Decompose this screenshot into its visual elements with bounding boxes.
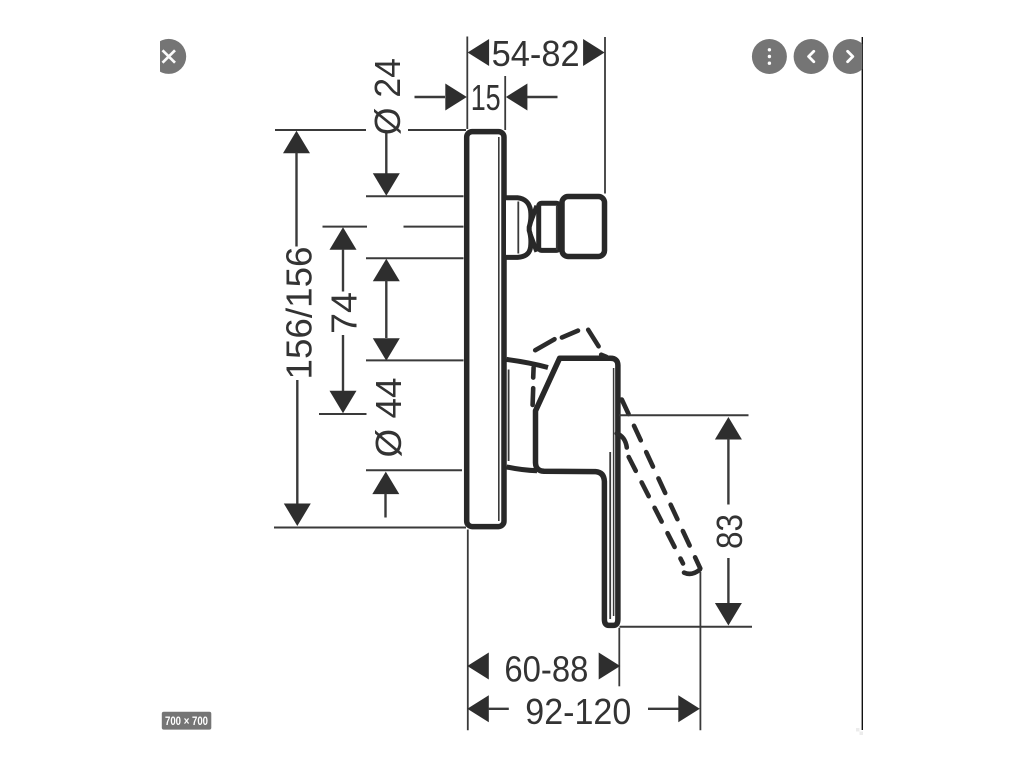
spout middle cylinder bbox=[539, 203, 560, 250]
svg-text:Ø 24: Ø 24 bbox=[367, 58, 408, 135]
bottom line of plate (156/156 lower extension) bbox=[274, 527, 466, 529]
dim 92-120 right arrow and shaft bbox=[648, 708, 679, 710]
dim Ø24 top arrow (points down) bbox=[385, 131, 387, 174]
valve body left rim line bbox=[508, 370, 510, 462]
Ø24 extension top bbox=[366, 195, 464, 197]
spout end block bbox=[562, 197, 605, 257]
svg-text:Ø 44: Ø 44 bbox=[368, 378, 409, 458]
svg-text:156/156: 156/156 bbox=[279, 247, 320, 380]
extension line left lower part (below plate, 60-88/92-120 left) bbox=[467, 530, 469, 731]
dim 15 left arrow and shaft bbox=[415, 96, 446, 98]
lever inner detail line bbox=[609, 452, 611, 619]
svg-text:60-88: 60-88 bbox=[504, 648, 588, 689]
valve body top edge bbox=[507, 359, 549, 367]
dim 83 bottom arrow bbox=[727, 558, 729, 604]
dim 156/156 bottom arrow bbox=[296, 380, 298, 505]
dim 15 right arrow and shaft bbox=[506, 84, 528, 111]
dash 3 bbox=[535, 339, 554, 350]
92-120 right extension line bbox=[699, 572, 701, 730]
next button (clipped at divider) bbox=[833, 39, 868, 74]
raised lever dashed outline, left edge hook bbox=[617, 434, 627, 448]
60-88 right extension line bbox=[618, 628, 620, 687]
spout cone upper edge bbox=[528, 206, 537, 230]
previous button bbox=[794, 39, 829, 74]
image size badge 700x700 bbox=[162, 712, 212, 730]
extension line 15 right bbox=[504, 76, 506, 130]
transparency checker corner bbox=[856, 728, 863, 735]
plate front face inner edge bbox=[498, 137, 500, 521]
svg-text:74: 74 bbox=[324, 292, 365, 334]
dash 5 bbox=[588, 330, 598, 347]
dim line 54-82 arrows bbox=[468, 39, 490, 66]
dim 74 top arrow bbox=[323, 226, 368, 228]
svg-text:92-120: 92-120 bbox=[525, 691, 631, 732]
raised lever dashed outline, right edge bbox=[622, 400, 701, 569]
handle pivot extension line (right) bbox=[619, 414, 749, 416]
dashed arc, handle swing envelope: dash 1 bbox=[531, 368, 536, 378]
Ø44 extension bottom bbox=[366, 469, 462, 471]
dim 60-88 arrows bbox=[467, 653, 489, 680]
extension line 54-82 right bbox=[604, 37, 606, 194]
dash 6 bbox=[601, 355, 606, 357]
wall plate (escutcheon, side view) bbox=[467, 132, 504, 527]
dim 83 top arrow bbox=[715, 417, 742, 440]
spout flange ring on plate bbox=[506, 198, 531, 258]
extension line left (54-82 / 15 left, upper part) bbox=[466, 37, 468, 130]
panel divider line bbox=[861, 37, 863, 730]
dash 2 bbox=[530, 388, 535, 405]
dim Ø44 bottom arrow (points up) bbox=[372, 472, 399, 495]
spout cone lower edge bbox=[528, 228, 537, 252]
74 lower extension line (handle pivot, left) bbox=[319, 413, 367, 415]
svg-text:54-82: 54-82 bbox=[492, 33, 580, 74]
dim 74 bottom arrow bbox=[342, 335, 344, 392]
svg-text:15: 15 bbox=[471, 77, 501, 118]
spout flange rim line bbox=[517, 202, 519, 254]
dim 92-120 left arrow and shaft bbox=[467, 695, 489, 722]
valve body bottom edge bbox=[507, 467, 538, 471]
Ø44 extension top bbox=[366, 359, 464, 361]
dim Ø44 top arrow (points down) bbox=[373, 338, 400, 361]
Ø24 extension bottom bbox=[366, 257, 464, 259]
top line of plate (156/156 upper extension) bbox=[275, 129, 366, 131]
raised lever dashed outline, left edge bbox=[629, 457, 683, 564]
lever bottom extension line (83 lower) bbox=[620, 626, 753, 628]
dim Ø24 bottom arrow (points up, shaft shared with Ø44 top arrow) bbox=[373, 259, 400, 282]
dash 4 bbox=[562, 331, 578, 338]
dim 156/156 top arrow bbox=[283, 131, 310, 154]
more options button (kebab) bbox=[752, 39, 787, 74]
cylinder rim line bbox=[556, 206, 558, 250]
raised lever rounded tip bbox=[684, 570, 700, 574]
close button (clipped at left) bbox=[151, 39, 186, 74]
svg-text:700 × 700: 700 × 700 bbox=[165, 716, 208, 728]
svg-text:83: 83 bbox=[709, 514, 750, 549]
handle with lever (down position) bbox=[536, 358, 618, 625]
lever right rim line bbox=[613, 368, 615, 616]
